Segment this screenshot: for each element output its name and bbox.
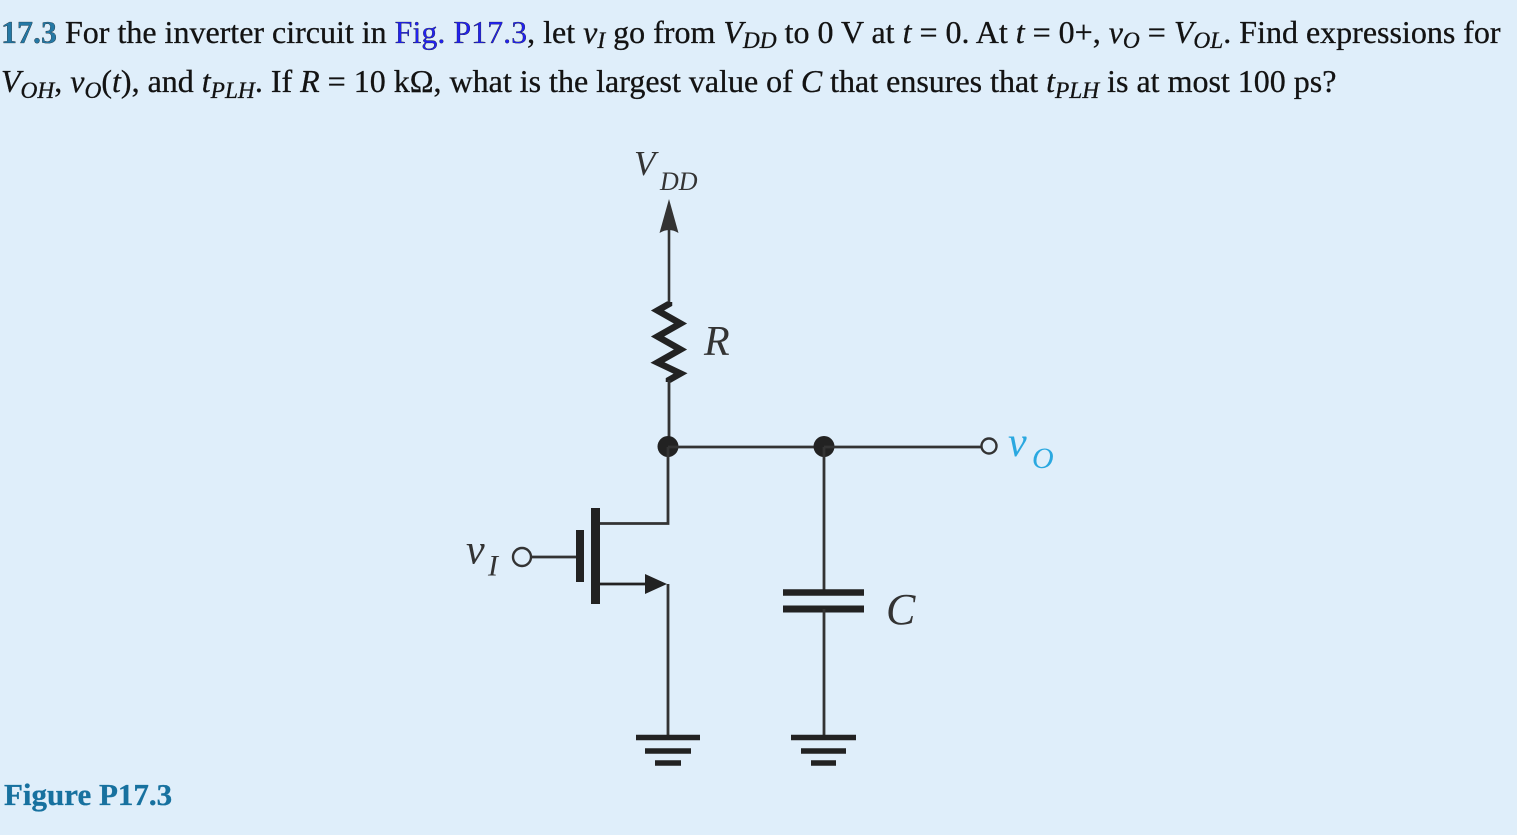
wire drain to node A <box>600 447 668 524</box>
output terminal circle <box>982 439 997 454</box>
power VDD label <box>634 144 698 196</box>
svg-text:v: v <box>466 528 485 574</box>
resistor R <box>658 302 681 382</box>
svg-text:O: O <box>1032 442 1054 475</box>
svg-text:R: R <box>703 319 730 365</box>
transistor Q1 channel bar <box>591 508 600 604</box>
input terminal circle <box>513 548 531 566</box>
svg-text:V: V <box>634 144 659 183</box>
label vI <box>466 528 500 583</box>
ground 2 (capacitor) <box>791 738 856 764</box>
wire source to ground <box>667 584 670 736</box>
wire node B to capacitor <box>823 447 826 592</box>
svg-text:v: v <box>1008 420 1027 466</box>
node B junction dot <box>814 436 835 457</box>
ground 1 (transistor source) <box>636 738 700 764</box>
label vO <box>1008 420 1054 475</box>
wire resistor to node <box>668 380 671 447</box>
transistor Q1 gate bar <box>576 530 584 582</box>
figure caption <box>4 777 172 813</box>
wire node B to output terminal <box>824 446 981 449</box>
wire gate terminal <box>531 556 576 559</box>
wire node A to node B <box>668 446 824 449</box>
node A junction dot <box>658 436 679 457</box>
svg-text:C: C <box>886 585 916 634</box>
capacitor C plates <box>783 593 864 610</box>
svg-text:DD: DD <box>659 167 698 196</box>
transistor Q1 source wire with arrow <box>598 574 667 594</box>
svg-text:I: I <box>487 550 500 583</box>
wire capacitor to ground <box>823 609 826 736</box>
power VDD arrow <box>660 199 679 304</box>
